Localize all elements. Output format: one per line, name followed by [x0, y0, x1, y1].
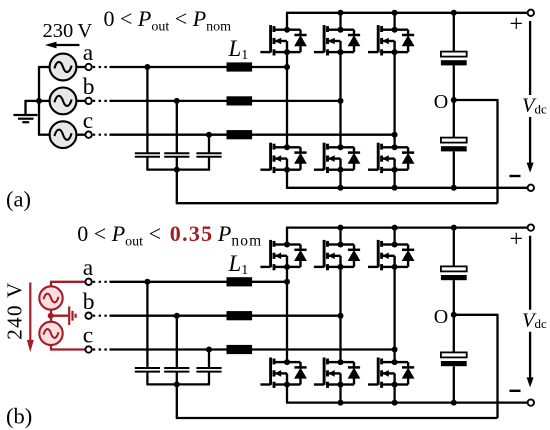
wire leg drain1 — [286, 13, 288, 30]
node phase c cap tap — [206, 132, 212, 138]
ac source Va (phase a) — [50, 54, 77, 81]
wire leg source4 — [286, 170, 288, 188]
wire cap C1 bottom — [146, 157, 148, 170]
svg-text:L1: L1 — [228, 251, 249, 278]
svg-text:c: c — [83, 108, 93, 134]
capacitor C2' — [164, 368, 189, 372]
ac source V1 (240V upper) — [39, 286, 62, 309]
wire O to lower cap' — [453, 315, 455, 353]
wire leg mid3' — [393, 267, 395, 362]
node phase b to leg — [338, 98, 344, 104]
node phase c to leg — [392, 132, 398, 138]
transistor Q1' (top, with body diode) — [260, 240, 307, 270]
wire leg drain2 — [339, 13, 341, 30]
wire leg source4' — [286, 385, 288, 403]
transistor Q1 (top, with body diode) — [260, 25, 307, 55]
node bottom rail leg c — [392, 185, 398, 191]
inductor Lc' — [227, 345, 253, 354]
wire bottom rail — [286, 187, 531, 189]
label -' — [510, 390, 521, 392]
wire cap C1' bottom — [146, 372, 148, 385]
wire cap C3' top — [208, 350, 210, 369]
node phase a cap tap — [144, 64, 150, 70]
wire between sources — [50, 310, 52, 322]
transistor Q3' (top, with body diode) — [368, 240, 415, 270]
terminal - — [528, 185, 534, 191]
terminal -' — [528, 399, 534, 405]
node top rail leg b' — [338, 225, 344, 231]
transistor Q4 (bottom, with body diode) — [260, 143, 307, 173]
wire cap bank to O' — [176, 384, 178, 418]
wire cap C3 bottom — [208, 157, 210, 170]
wire leg mid1 — [286, 52, 288, 147]
wire cap C3' bottom — [208, 372, 210, 385]
wire phase c line — [110, 134, 395, 136]
terminal b — [85, 98, 91, 104]
wire source to phase c terminal — [50, 345, 52, 350]
node phase c' to leg — [392, 347, 398, 353]
wire cap bank to O — [176, 170, 178, 204]
wire leg mid2' — [339, 267, 341, 362]
capacitor Cdc1 — [441, 52, 467, 66]
wire dc branch upper' — [453, 228, 455, 267]
wire leg drain1' — [286, 228, 288, 245]
wire dotted c — [93, 134, 109, 136]
svg-text:(b): (b) — [6, 403, 32, 428]
wire leg drain3' — [393, 228, 395, 245]
wire phase c stub — [76, 134, 85, 136]
node O' — [451, 312, 457, 318]
capacitor C1' — [135, 368, 160, 372]
transistor Q4' (bottom, with body diode) — [260, 358, 307, 388]
wire cap bank bus — [146, 168, 210, 170]
wire cap C3 top — [208, 135, 210, 154]
svg-text:Vdc: Vdc — [522, 309, 547, 331]
node cap bank star — [174, 167, 180, 173]
wire leg mid1' — [286, 267, 288, 362]
node top rail dc branch' — [451, 225, 457, 231]
wire leg source5' — [339, 385, 341, 403]
inductor Lb — [227, 96, 253, 105]
node bottom rail leg b — [338, 185, 344, 191]
transistor Q3 (top, with body diode) — [368, 25, 415, 55]
capacitor Cdc2 — [441, 138, 467, 152]
node phase b' to leg — [338, 313, 344, 319]
wire dc branch lower — [453, 151, 455, 187]
svg-text:Vdc: Vdc — [522, 95, 547, 117]
svg-text:O: O — [434, 306, 448, 328]
wire to ground — [26, 100, 40, 102]
svg-text:c: c — [83, 323, 93, 349]
transistor Q2' (top, with body diode) — [314, 240, 361, 270]
svg-text:0 < Pout < 0.35 Pnom: 0 < Pout < 0.35 Pnom — [77, 221, 262, 250]
capacitor C1 — [135, 153, 160, 157]
transistor Q2 (top, with body diode) — [314, 25, 361, 55]
wire dotted c' — [93, 348, 109, 350]
transistor Q6 (bottom, with body diode) — [368, 143, 415, 173]
wire cap C1 top — [146, 67, 148, 153]
wire leg drain2' — [339, 228, 341, 245]
node top rail leg b — [338, 10, 344, 16]
wire phase b line — [110, 100, 341, 102]
label - — [510, 175, 521, 177]
svg-text:b: b — [83, 74, 95, 100]
wire phase b' line — [110, 315, 341, 317]
capacitor Cdc1' — [441, 266, 467, 280]
capacitor Cdc2' — [441, 352, 467, 366]
arrow Vdc — [529, 21, 531, 95]
wire leg source6' — [393, 385, 395, 403]
wire cap bank bus' — [146, 383, 210, 385]
arrow 230V direction — [55, 44, 80, 46]
capacitor C3 — [196, 153, 221, 157]
wire dc branch upper — [453, 13, 455, 52]
capacitor C2 — [164, 153, 189, 157]
svg-text:O: O — [434, 91, 448, 113]
arrow 240V direction — [29, 283, 31, 342]
ground — [14, 114, 38, 116]
wire cap C2' top — [176, 316, 178, 368]
svg-text:a: a — [83, 255, 94, 281]
node phase a' to leg — [284, 279, 290, 285]
wire midpoint to ground — [51, 315, 68, 317]
node top rail dc branch — [451, 10, 457, 16]
wire dotted b — [93, 100, 109, 102]
arrow Vdc' — [529, 236, 531, 310]
node top rail leg c — [392, 10, 398, 16]
node cap bank star' — [174, 381, 180, 387]
node source star point — [36, 98, 42, 104]
svg-text:230 V: 230 V — [43, 20, 93, 42]
terminal b' — [85, 313, 91, 319]
node O — [451, 97, 457, 103]
svg-text:a: a — [83, 40, 94, 66]
wire leg drain3 — [393, 13, 395, 30]
wire source to phase a terminal — [50, 282, 52, 287]
node bottom rail leg b' — [338, 400, 344, 406]
capacitor C3' — [196, 368, 221, 372]
wire phase a line — [110, 66, 288, 68]
inductor Lb' — [227, 311, 253, 320]
wire cap C2' bottom — [176, 372, 178, 385]
wire top rail — [286, 12, 531, 14]
node bottom rail leg c' — [392, 400, 398, 406]
wire left bus joining sources — [38, 67, 40, 135]
wire leg source6 — [393, 170, 395, 188]
node bottom rail dc branch' — [451, 400, 457, 406]
inductor Lc — [227, 130, 253, 139]
node phase a to leg — [284, 64, 290, 70]
wire phase a' line — [110, 281, 288, 283]
wire phase c' line — [110, 348, 395, 350]
node phase a' cap tap — [144, 279, 150, 285]
wire cap C1' top — [146, 282, 148, 368]
terminal a — [85, 64, 91, 70]
terminal +' — [528, 224, 534, 230]
wire top rail' — [286, 226, 531, 228]
wire leg source5 — [339, 170, 341, 188]
wire leg mid2 — [339, 52, 341, 147]
wire phase b stub — [76, 100, 85, 102]
svg-text:b: b — [83, 289, 95, 315]
ground (rotated) — [68, 306, 70, 325]
svg-text:240 V: 240 V — [3, 281, 27, 339]
node top rail leg c' — [392, 225, 398, 231]
terminal a' — [85, 279, 91, 285]
wire O to lower cap — [453, 100, 455, 138]
wire cap C2 top — [176, 101, 178, 153]
transistor Q5 (bottom, with body diode) — [314, 143, 361, 173]
wire dotted b' — [93, 315, 109, 317]
terminal c' — [85, 346, 91, 352]
node bottom rail dc branch — [451, 185, 457, 191]
wire dotted a' — [93, 281, 109, 283]
transistor Q5' (bottom, with body diode) — [314, 358, 361, 388]
ac source Vc (phase c) — [50, 121, 77, 148]
wire cap C2 bottom — [176, 157, 178, 170]
svg-text:+: + — [510, 227, 524, 253]
transistor Q6' (bottom, with body diode) — [368, 358, 415, 388]
svg-text:L1: L1 — [228, 36, 249, 63]
svg-text:0 < Pout < Pnom: 0 < Pout < Pnom — [104, 6, 232, 35]
inductor La — [227, 62, 253, 71]
svg-text:+: + — [510, 12, 524, 38]
node phase c' cap tap — [206, 347, 212, 353]
svg-text:(a): (a) — [6, 186, 31, 211]
node phase b cap tap — [174, 98, 180, 104]
inductor La' — [227, 277, 253, 286]
terminal c — [85, 132, 91, 138]
ac source V2 (240V lower) — [39, 322, 62, 345]
wire leg mid3 — [393, 52, 395, 147]
node phase b' cap tap — [174, 313, 180, 319]
wire dc branch to O' — [453, 280, 455, 315]
wire bottom rail' — [286, 401, 531, 403]
ac source Vb (phase b) — [50, 88, 77, 115]
node source midpoint — [48, 313, 54, 319]
wire dotted a — [93, 66, 109, 68]
wire dc branch to O — [453, 65, 455, 100]
wire dc branch lower' — [453, 366, 455, 402]
terminal + — [528, 10, 534, 16]
wire phase a stub — [76, 66, 85, 68]
